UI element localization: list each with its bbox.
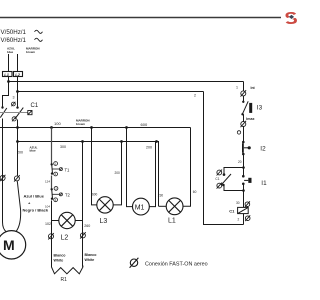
- AC tilde 1: [35, 30, 43, 33]
- svg-text:30: 30: [236, 201, 240, 205]
- wire L1 lamp right to bus100 end: [183, 128, 191, 207]
- thermostat T1: [51, 162, 63, 177]
- wire to I3 top contact: [243, 96, 245, 102]
- node bus100 x51.5: [50, 126, 53, 129]
- svg-text:230: 230: [158, 193, 164, 197]
- fast-on below L2 right: [80, 232, 86, 238]
- node bus200 x121.5: [120, 140, 123, 143]
- bus 100: [0, 127, 191, 129]
- wire net 2 run: [18, 91, 204, 93]
- svg-text:Azul / Blue: Azul / Blue: [24, 194, 45, 199]
- breaker I3: [241, 101, 252, 116]
- svg-text:102: 102: [45, 222, 51, 226]
- fan motor M1: [133, 198, 150, 215]
- wire motor right lower: [16, 181, 21, 231]
- wire motor right upper: [17, 128, 19, 176]
- svg-text:Imax: Imax: [246, 117, 254, 121]
- svg-text:brown: brown: [76, 122, 85, 126]
- svg-text:T2: T2: [65, 193, 71, 198]
- wire L1 lamp left stub: [159, 205, 167, 207]
- svg-text:L1: L1: [168, 218, 176, 225]
- node bus200 end: [155, 140, 158, 143]
- pin circle near wire: [237, 131, 240, 134]
- wire T2 down to R1 left: [51, 201, 53, 267]
- svg-text:300: 300: [60, 145, 66, 149]
- wire bus200 down to R1 right: [82, 142, 84, 267]
- svg-text:1: 1: [236, 85, 238, 89]
- node L2 feed: [16, 90, 19, 93]
- lamp L1: [166, 198, 183, 215]
- svg-text:M: M: [3, 237, 15, 253]
- wire L1 lamp left to bus200: [157, 142, 159, 207]
- fast-on right of C1 top: [245, 201, 250, 207]
- switch S pole a contact: [1, 106, 3, 108]
- svg-text:V/50Hz/1: V/50Hz/1: [1, 29, 27, 36]
- push button I2: [242, 141, 251, 156]
- fast-on connector at switch pole b: [11, 102, 15, 107]
- svg-text:2: 2: [238, 218, 240, 222]
- svg-text:blue: blue: [30, 149, 36, 153]
- svg-text:White: White: [85, 258, 95, 262]
- svg-text:20: 20: [238, 160, 242, 164]
- wire fast-on to I2: [243, 127, 245, 143]
- svg-text:+: +: [28, 201, 31, 206]
- wire L2 down: [17, 77, 19, 92]
- wire net 1 top run: [9, 81, 244, 83]
- wire L2 lamp left stub: [52, 220, 59, 222]
- svg-text:White: White: [54, 259, 64, 263]
- fast-on top of I3: [241, 90, 247, 96]
- logo (red S emblem): [283, 8, 300, 28]
- wire M1 right to bus200: [149, 142, 156, 207]
- svg-text:C1: C1: [215, 177, 219, 181]
- node bypass bottom: [242, 189, 245, 192]
- svg-text:L2: L2: [15, 72, 20, 77]
- svg-text:brown: brown: [26, 50, 35, 54]
- wire L1 down: [8, 77, 10, 82]
- wire I1 down to C1: [243, 184, 245, 208]
- node bus200 x82.5: [81, 140, 84, 143]
- node L1 feed: [7, 80, 10, 83]
- wire net1 corner down: [243, 82, 245, 92]
- connector C1 (capacitor block): [238, 207, 249, 213]
- wire bus100 to T1: [51, 128, 53, 165]
- wire L3 right to bus200: [113, 142, 121, 205]
- svg-text:R1: R1: [61, 277, 68, 283]
- fast-on below L2 left: [48, 233, 54, 239]
- frame top border: [0, 17, 281, 19]
- node bus100 x126.5: [125, 126, 128, 129]
- AC tilde 2: [35, 38, 43, 41]
- svg-text:60: 60: [193, 190, 197, 194]
- node bus200 start: [16, 140, 19, 143]
- svg-text:3: 3: [13, 95, 15, 99]
- node bypass switch top: [223, 173, 226, 176]
- thermostat T2: [51, 187, 63, 202]
- wire bypass top: [224, 168, 244, 175]
- svg-text:L3: L3: [100, 218, 108, 225]
- svg-text:Int: Int: [251, 86, 256, 90]
- fast-on under switch pole b: [12, 116, 16, 121]
- svg-text:Blanco: Blanco: [85, 253, 98, 257]
- svg-text:200: 200: [115, 171, 121, 175]
- fast-on below I3: [241, 121, 247, 127]
- wire motor left: [3, 119, 7, 233]
- node bypass switch bottom: [222, 184, 225, 187]
- bypass switch blade: [221, 174, 231, 185]
- svg-text:200: 200: [146, 145, 152, 149]
- fast-on bypass top: [217, 170, 222, 176]
- wire T1 to T2: [51, 176, 53, 190]
- terminal L2: [14, 72, 23, 77]
- wire into L1: [8, 54, 10, 72]
- svg-text:L2: L2: [61, 235, 69, 242]
- svg-text:Conexión FAST-ON aereo: Conexión FAST-ON aereo: [145, 261, 208, 267]
- svg-text:I3: I3: [257, 105, 263, 112]
- wire I3 to fast-on: [243, 114, 245, 121]
- svg-text:200: 200: [17, 151, 23, 155]
- switch S pole b blade: [15, 108, 23, 119]
- svg-text:C1: C1: [229, 208, 235, 213]
- fast-on motor left: [0, 175, 5, 181]
- wire I2 down: [243, 154, 245, 176]
- svg-text:I2: I2: [260, 146, 266, 153]
- legend fast-on symbol: [130, 258, 139, 268]
- fast-on bypass bottom: [217, 183, 222, 189]
- svg-text:I1: I1: [261, 180, 267, 187]
- push button I1: [242, 175, 252, 185]
- svg-text:C1: C1: [31, 103, 39, 109]
- wire return to net2: [204, 92, 244, 225]
- svg-text:600: 600: [92, 192, 98, 196]
- lamp L3: [97, 197, 113, 213]
- connector C1 box (switch): [28, 111, 32, 115]
- wire bus100 to M1 left: [127, 128, 133, 207]
- node bus100 x17.5: [16, 126, 19, 129]
- terminal L1: [3, 72, 13, 77]
- wire into L2: [17, 54, 19, 72]
- wire bus100 to L3 left: [92, 128, 97, 205]
- switch S pole a blade: [0, 108, 7, 118]
- wire bypass bottom: [224, 185, 244, 191]
- wire C1 down: [243, 214, 245, 225]
- svg-text:600: 600: [141, 122, 148, 127]
- wire switch pole b to bus 100: [17, 120, 19, 128]
- motor M: [0, 231, 26, 259]
- svg-text:T1: T1: [65, 167, 71, 172]
- lamp L2: [59, 212, 75, 228]
- resistor R1: [52, 266, 83, 274]
- fast-on motor right: [14, 175, 20, 181]
- node bypass top: [242, 166, 245, 169]
- svg-text:Blanco: Blanco: [54, 254, 67, 258]
- wire L2 node to switch pole b: [17, 92, 19, 108]
- svg-text:M1: M1: [135, 204, 145, 211]
- wire L2 lamp right stub: [75, 220, 82, 222]
- svg-text:blue: blue: [7, 50, 13, 54]
- switch linkage: [0, 112, 28, 114]
- svg-text:124: 124: [45, 179, 50, 183]
- svg-text:104: 104: [45, 204, 50, 208]
- bus 200: [18, 141, 157, 143]
- switch S pole b contact: [16, 106, 18, 108]
- node bus100 x91.5: [90, 126, 93, 129]
- wire L1 to switch pole a: [3, 82, 9, 108]
- svg-text:260: 260: [84, 224, 90, 228]
- svg-text:L1: L1: [4, 72, 9, 77]
- svg-text:V/60Hz/1: V/60Hz/1: [1, 37, 27, 44]
- svg-text:100: 100: [54, 121, 61, 126]
- svg-text:2: 2: [194, 94, 196, 98]
- fast-on right of C1 bottom: [245, 215, 250, 221]
